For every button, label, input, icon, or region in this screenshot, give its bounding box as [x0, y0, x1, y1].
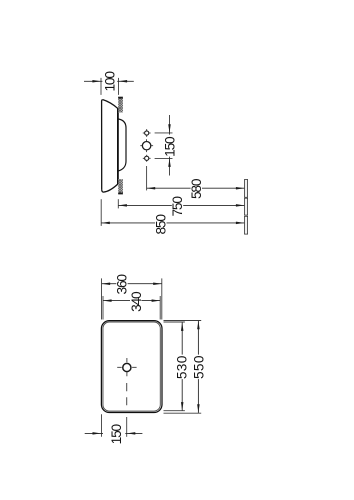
fixing hole middle [142, 142, 150, 150]
svg-text:340: 340 [129, 291, 144, 312]
dimension 340 extension lines [102, 296, 104, 320]
dimension 360 extension lines [101, 278, 103, 319]
dimension 550 extension lines [164, 320, 202, 322]
dimension 750 line [118, 204, 172, 206]
fixing hole bottom [145, 156, 149, 160]
wall bar segment 1 [245, 180, 248, 198]
dimension 150 arrows (plan) [85, 432, 103, 434]
dimension 580 line [147, 187, 191, 189]
dimension 100 extension lines [100, 78, 102, 95]
fixing hole top [145, 131, 149, 135]
svg-text:100: 100 [103, 71, 118, 92]
basin outer rim (plan) [101, 321, 162, 413]
svg-text:750: 750 [170, 196, 185, 217]
drain hole [123, 363, 131, 371]
dimension 100 arrows [84, 80, 102, 82]
svg-text:550: 550 [191, 355, 206, 379]
svg-text:150: 150 [163, 136, 178, 157]
svg-text:580: 580 [189, 178, 204, 199]
svg-text:850: 850 [154, 214, 169, 235]
svg-text:360: 360 [115, 274, 130, 295]
rear mounting bulge [118, 119, 126, 171]
dimension 340 line [103, 300, 130, 302]
basin profile outline (side view) [102, 100, 118, 193]
drain centreline (dashed) [126, 383, 128, 405]
dimension 360 line [102, 283, 117, 285]
basin bottom edge [102, 184, 118, 192]
wall bar segment 2 [245, 198, 248, 215]
basin inner rim (plan) [103, 322, 160, 411]
svg-text:530: 530 [175, 355, 190, 379]
dimension 550 line [197, 321, 199, 355]
dimension 150 extension lines (plan) [101, 414, 103, 437]
dimension 150 arrows (side) [169, 115, 171, 135]
basin rear vertical edge (wall face) [117, 108, 119, 184]
dimension 150 extension lines (side) [155, 132, 173, 134]
dimension 530 line [181, 322, 183, 354]
dimension 850 extension line [100, 199, 102, 226]
wall hatch top [118, 97, 123, 113]
dimension 750 extension line [117, 199, 119, 208]
basin front vertical edge [102, 100, 103, 190]
dimension 850 line [101, 222, 155, 224]
wall bar segment 3 [245, 216, 248, 234]
dimension 580 extension line [146, 166, 148, 190]
svg-text:150: 150 [109, 423, 124, 444]
wall hatch bottom [118, 179, 123, 194]
dimension 530 extension lines [164, 321, 185, 323]
